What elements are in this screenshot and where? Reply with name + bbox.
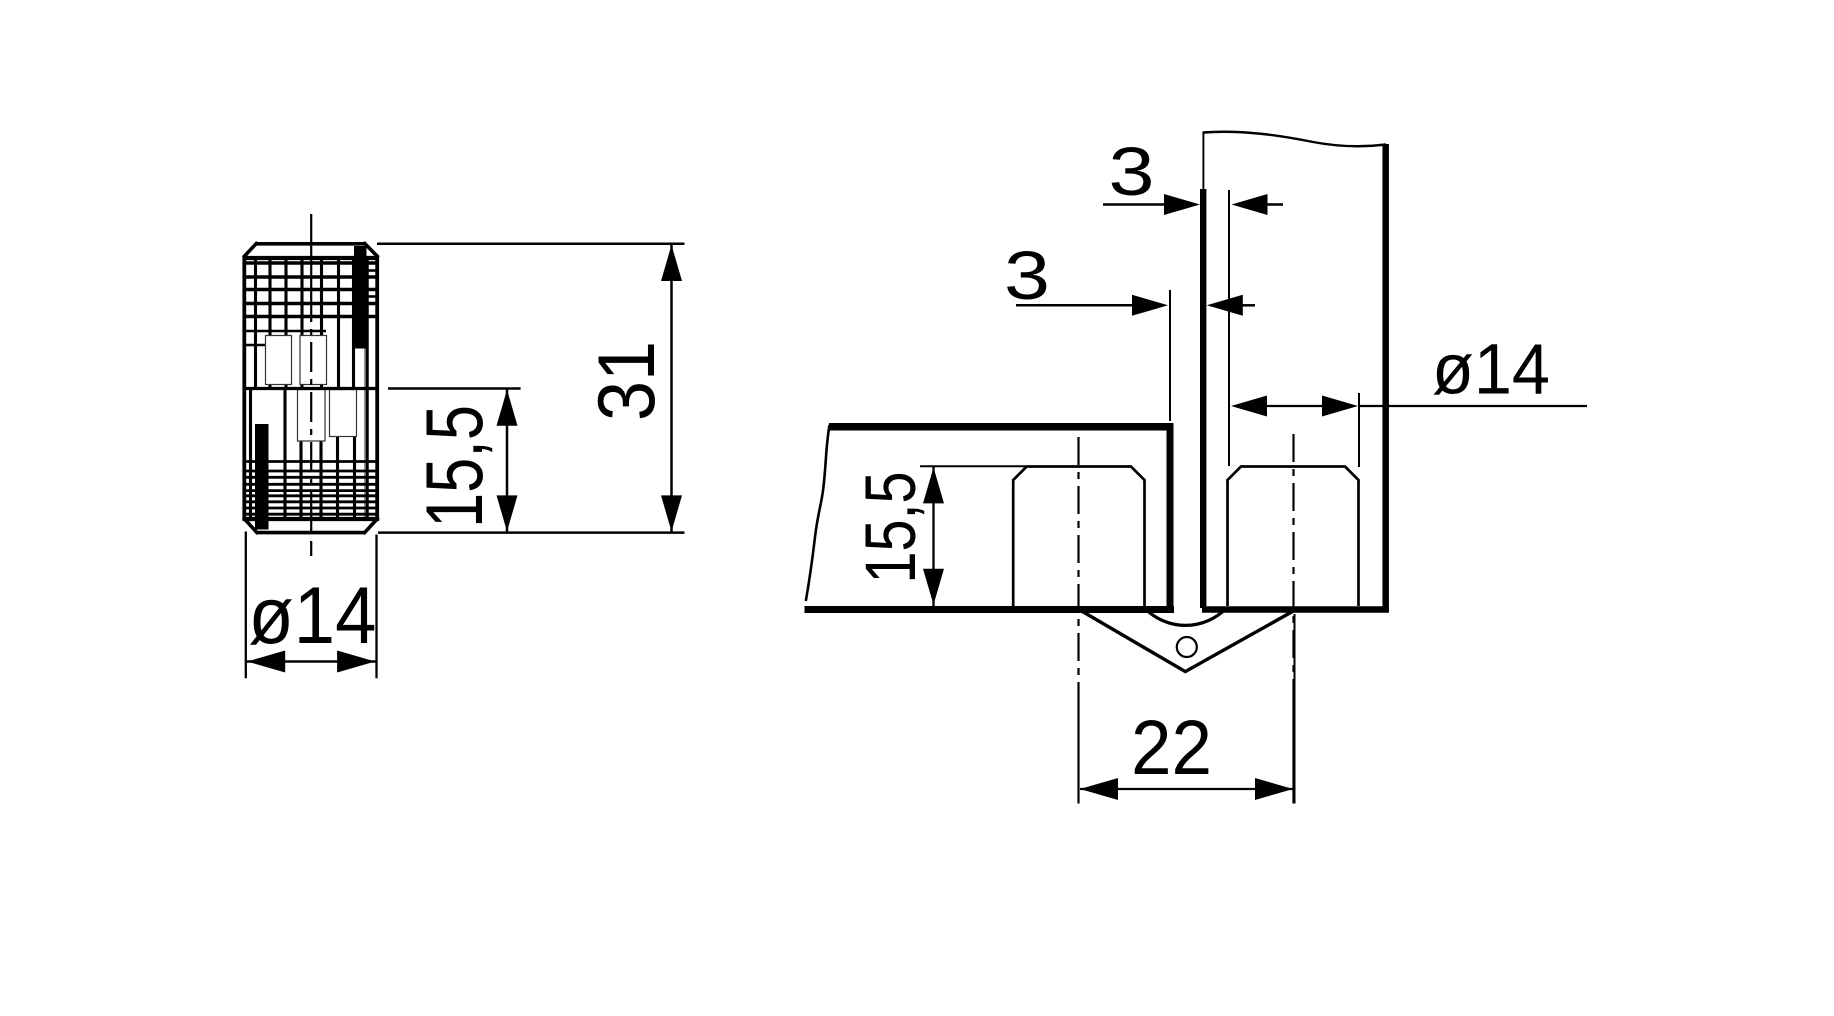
dimension 3 (top: door face to hole) — [1103, 133, 1283, 466]
dimension 31 (left view total height) — [377, 244, 685, 533]
svg-text:15,5: 15,5 — [410, 405, 500, 528]
dimension diameter 14 (right view, hole width) — [1231, 331, 1587, 468]
dimension 22 (between insert centerlines) — [1080, 614, 1295, 804]
knurled bush: outline with chamfered corners — [243, 242, 379, 534]
svg-text:15,5: 15,5 — [852, 472, 931, 584]
arc of bush bottom visible in gap — [1145, 609, 1226, 626]
right hinge insert in door (trapezoid) — [1228, 467, 1359, 607]
knurled bush: knurl grid pattern — [246, 258, 376, 519]
knurled bush: white highlight rectangles — [266, 336, 357, 442]
svg-text:22: 22 — [1131, 705, 1212, 791]
svg-text:ø14: ø14 — [1432, 331, 1550, 410]
centerline of right insert (dash-dot) — [1292, 434, 1294, 804]
hinge knuckle V-piece below joint — [1079, 610, 1293, 672]
svg-text:31: 31 — [582, 341, 672, 421]
centerline of left insert (dash-dot) — [1077, 437, 1079, 804]
knurled bush: dark shadow bar lower left — [255, 424, 269, 530]
svg-text:ø14: ø14 — [248, 571, 376, 661]
left hinge insert in frame (trapezoid) — [1013, 467, 1144, 607]
dimension 15,5 (left view) — [388, 389, 521, 533]
pivot hole circle in knuckle — [1177, 637, 1197, 657]
svg-text:3: 3 — [1109, 133, 1155, 210]
dimension diameter 14 (left view) — [246, 532, 377, 679]
knurled bush: vertical centerline (dash-dot) — [310, 214, 312, 556]
dimension 3 (lower: frame face to door face) — [1004, 237, 1255, 421]
dimension 15,5 (right view, insert depth) — [852, 466, 1026, 606]
frame panel (left, horizontal) — [805, 423, 1175, 610]
svg-text:3: 3 — [1004, 237, 1050, 314]
door panel (right, vertical) — [1202, 132, 1389, 610]
knurled bush: dark shadow bar upper right — [354, 246, 367, 349]
